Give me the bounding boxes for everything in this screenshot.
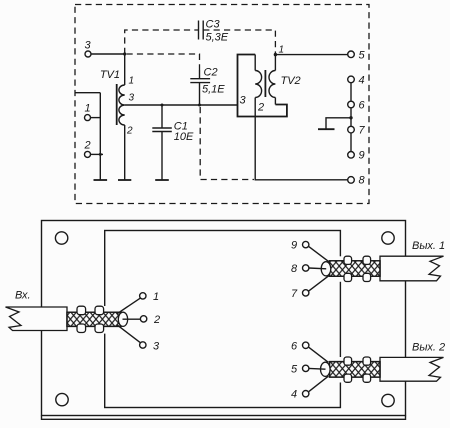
TV2 left upper stub (254, 55, 256, 71)
svg-text:Вых. 1: Вых. 1 (412, 240, 445, 252)
svg-text:5: 5 (359, 50, 366, 62)
case ground link (75, 92, 100, 94)
cable end (321, 262, 331, 276)
node 3 terminal (85, 40, 92, 58)
TV2 right winding (269, 71, 275, 98)
pin 4 (303, 391, 309, 397)
wire pin4 (309, 376, 329, 391)
svg-text:2: 2 (126, 126, 133, 137)
svg-text:1: 1 (153, 291, 159, 303)
wire to pin1 (117, 298, 140, 314)
wire pin5 (309, 367, 326, 370)
svg-text:7: 7 (291, 288, 298, 300)
pin 5 (303, 365, 309, 371)
TV1 pin2 lead (124, 125, 126, 180)
braid section (330, 362, 381, 378)
case (outer dashed box) (75, 5, 369, 204)
wire pin7 (309, 276, 329, 291)
pin 1 (140, 293, 146, 299)
TV1 lead pin1 (124, 54, 126, 85)
wire (dashed) up from junction (125, 30, 198, 54)
wire to pin2 (123, 318, 141, 320)
svg-text:TV2: TV2 (281, 75, 301, 87)
cable jacket with break (380, 357, 444, 381)
terminal 2 (84, 140, 91, 158)
cable jacket with break (6, 307, 68, 331)
svg-text:2: 2 (153, 314, 160, 326)
wire TV2 pin2 to terminal 8 (255, 98, 348, 180)
ground symbol (output bus) (318, 128, 335, 130)
ground TV1 pin2 (118, 179, 131, 181)
capacitor C2 (190, 67, 225, 106)
ground bus symbol (94, 179, 108, 181)
capacitor C3 (199, 19, 229, 44)
svg-text:TV1: TV1 (100, 69, 120, 81)
terminal 4 (348, 75, 365, 87)
pin 2 (140, 316, 146, 322)
cable end (321, 362, 331, 376)
input cable Вх (6, 290, 161, 353)
svg-text:4: 4 (291, 389, 297, 401)
ground tap junction (349, 116, 352, 119)
terminal 9 (348, 150, 365, 162)
ground bus (99, 93, 101, 180)
braid section (67, 312, 121, 326)
pin 7 (303, 290, 309, 296)
terminal 1 (85, 103, 91, 121)
clamp tabs (344, 256, 352, 264)
pin 6 (303, 342, 309, 348)
cable jacket with break (380, 256, 444, 281)
wire pin8 (309, 267, 326, 270)
svg-text:2: 2 (257, 102, 264, 114)
ground tap wire (326, 118, 351, 129)
junction bus/terminal2 (99, 153, 102, 156)
inner shield compartment (dashed) (200, 107, 254, 180)
svg-text:3: 3 (129, 93, 135, 104)
base plate (42, 221, 406, 416)
junction C1/node (161, 104, 164, 107)
board (inner rect) (105, 231, 341, 408)
svg-text:9: 9 (359, 150, 365, 162)
mounting hole top-left (55, 232, 67, 244)
svg-text:1: 1 (129, 76, 135, 87)
svg-text:9: 9 (291, 240, 297, 252)
svg-text:1: 1 (85, 103, 91, 115)
wire terminal2 to bus (91, 153, 104, 155)
wire TV2 pin1 to terminal 5 (275, 54, 348, 56)
svg-text:8: 8 (359, 175, 366, 187)
wire (dashed) junction to C2 branch (127, 54, 200, 70)
clamp tabs (344, 357, 352, 365)
braid section (330, 261, 381, 277)
capacitor C1 (152, 105, 194, 180)
output 1 cable Вых.1 (291, 240, 445, 301)
pin 9 (303, 241, 309, 247)
svg-text:C3: C3 (206, 19, 221, 31)
pin 8 (303, 265, 309, 271)
svg-text:6: 6 (359, 100, 366, 112)
wire terminal1 to bus (91, 117, 101, 119)
svg-text:3: 3 (240, 95, 247, 107)
TV2 left winding (255, 71, 261, 98)
mounting hole bottom-right (382, 394, 394, 406)
link line terminals 4-6-7-9 (350, 83, 352, 152)
svg-text:Вых. 2: Вых. 2 (412, 341, 445, 353)
svg-text:5: 5 (291, 364, 298, 376)
junction C2/node (198, 104, 201, 107)
TV2 core (264, 70, 266, 97)
TV1 winding (119, 85, 125, 125)
mounting hole bottom-left (56, 393, 68, 405)
output 2 cable Вых.2 (291, 341, 445, 401)
terminal 5 (348, 50, 366, 62)
svg-text:5,1E: 5,1E (202, 84, 225, 96)
pin 3 (140, 342, 146, 348)
wire terminal3 to junction (91, 53, 125, 55)
TV2 right winding lower stub (274, 98, 276, 105)
transformer TV1 (100, 54, 135, 180)
TV1 core (116, 84, 118, 125)
node line (TV1 tap to TV2 pin3) (125, 104, 238, 106)
transformer TV2 body outline (238, 55, 287, 117)
svg-text:Вх.: Вх. (15, 290, 31, 302)
svg-text:10E: 10E (174, 131, 194, 143)
svg-text:2: 2 (84, 140, 91, 152)
svg-text:7: 7 (359, 125, 366, 137)
terminal 6 (348, 100, 366, 112)
svg-text:4: 4 (359, 75, 365, 87)
terminal 8 (348, 175, 366, 187)
wire pin9 (309, 247, 329, 262)
junction A (123, 52, 126, 55)
wire (dashed) from C3 to TV2 pin1 (203, 30, 275, 52)
svg-text:3: 3 (153, 341, 160, 353)
mounting hole top-right (382, 232, 394, 244)
svg-text:1: 1 (279, 45, 285, 56)
clamp tabs (77, 306, 86, 315)
ground C1 (155, 179, 169, 181)
cable end (118, 312, 127, 326)
svg-text:8: 8 (291, 263, 298, 275)
svg-text:6: 6 (291, 341, 298, 353)
junction TV2 pin1 (274, 53, 277, 56)
base plate bottom flange (42, 416, 406, 420)
svg-text:3: 3 (85, 40, 92, 52)
terminal 7 (348, 125, 366, 137)
svg-text:5,3E: 5,3E (206, 32, 229, 44)
svg-text:C2: C2 (204, 67, 218, 79)
wire pin6 (309, 347, 329, 362)
TV2 pin1 lead (274, 52, 276, 71)
wire to pin3 (117, 325, 140, 343)
